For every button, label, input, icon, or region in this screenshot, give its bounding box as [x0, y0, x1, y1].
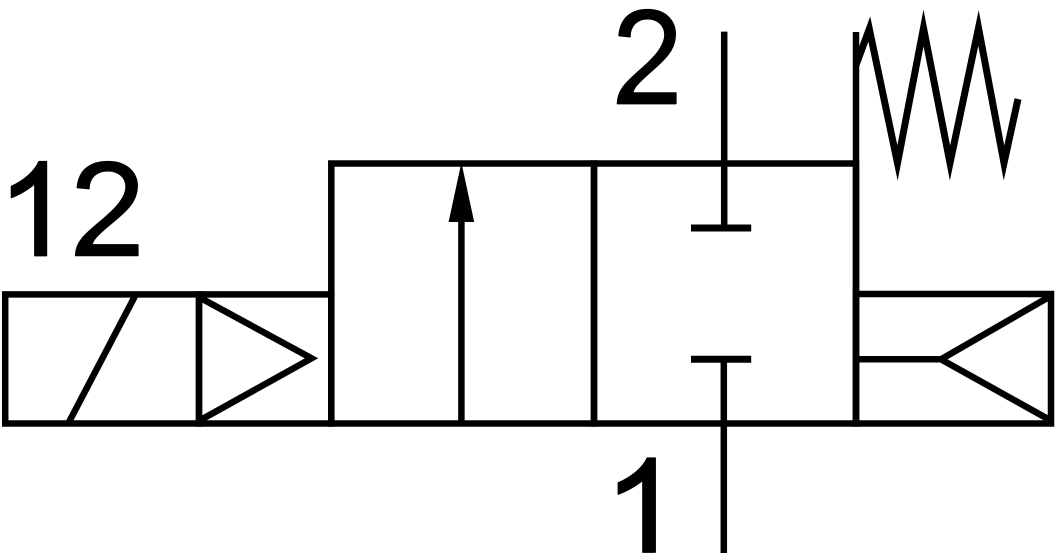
port label 2	[617, 10, 676, 104]
pilot triangle	[202, 299, 312, 420]
return spring	[856, 28, 1018, 163]
return triangle	[941, 297, 1049, 420]
return mid line	[856, 356, 941, 363]
flow arrow stem	[458, 218, 465, 424]
pilot box	[199, 294, 331, 423]
valve square left	[331, 164, 594, 424]
flow arrow head	[449, 163, 475, 223]
port label 12	[11, 161, 138, 255]
solenoid box	[5, 294, 199, 423]
port 1 wire	[721, 359, 728, 553]
port 2 wire	[721, 32, 728, 228]
port label 1	[618, 458, 655, 552]
valve square right	[594, 164, 856, 424]
lower seat bar	[691, 356, 751, 363]
right edge riser	[853, 32, 860, 424]
return box	[856, 294, 1051, 424]
solenoid diagonal	[69, 296, 135, 422]
upper seat bar	[691, 225, 751, 232]
